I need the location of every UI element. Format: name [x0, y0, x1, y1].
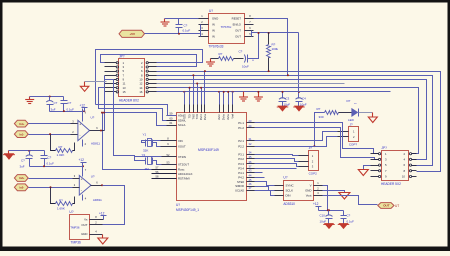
svg-text:15: 15 [123, 90, 127, 94]
svg-text:UCLK0: UCLK0 [235, 188, 244, 192]
wire MSP P3.1 to COP2 pin1 [255, 155, 299, 156]
svg-text:In2-: In2- [19, 186, 24, 190]
svg-text:U?: U? [91, 175, 95, 179]
svg-text:GND: GND [305, 189, 311, 193]
ground for C4 [293, 106, 305, 111]
svg-text:C?: C? [54, 101, 58, 105]
svg-text:GND: GND [212, 16, 218, 20]
svg-text:SCL/L: SCL/L [178, 123, 186, 127]
svg-text:RST/NMI: RST/NMI [178, 177, 190, 181]
capacitor C5 [46, 97, 57, 112]
svg-text:0.1uF: 0.1uF [183, 29, 191, 33]
svg-text:ADC12CLK: ADC12CLK [178, 172, 193, 176]
input connector Inp1 arrow [14, 120, 28, 127]
svg-text:P1.2: P1.2 [238, 126, 244, 130]
svg-text:TDO: TDO [182, 114, 186, 119]
svg-text:P3.1: P3.1 [238, 153, 244, 157]
svg-text:AVcc: AVcc [217, 113, 221, 120]
svg-text:Y1: Y1 [143, 133, 147, 137]
svg-text:RESET: RESET [232, 16, 242, 20]
svg-text:P3.2: P3.2 [238, 157, 244, 161]
wire header pin13 to MSP pin60 [99, 88, 177, 121]
svg-text:+12: +12 [313, 202, 319, 206]
svg-text:TMS: TMS [191, 114, 195, 120]
svg-text:JP?: JP? [119, 55, 125, 59]
output connector OUT arrow [378, 203, 400, 209]
capacitor C10 10uF [320, 211, 333, 224]
LED D1 [347, 99, 359, 122]
wire MSP P1.1 to JP4 pin1 [255, 123, 379, 154]
bus wire net5 [157, 88, 419, 154]
wire MSP P2.2 to J2 pin2 [255, 137, 338, 147]
svg-text:AD811: AD811 [93, 198, 102, 202]
svg-text:TCK: TCK [195, 114, 199, 119]
wire Inp2 to op-amp [29, 133, 71, 135]
wire +5V to U3 inputs [145, 25, 201, 37]
svg-text:3uF: 3uF [51, 108, 56, 112]
svg-text:OUT: OUT [383, 204, 390, 208]
bus wire net4 [157, 84, 345, 93]
svg-text:OUT: OUT [235, 34, 241, 38]
wire U3 GND pin to ground [165, 18, 199, 20]
wire MSP STE0 to DAC SYNC [255, 182, 275, 186]
svg-text:P2.2: P2.2 [238, 144, 244, 148]
svg-text:Vs: Vs [84, 218, 88, 222]
bus wire net2 [157, 74, 433, 165]
svg-text:16: 16 [139, 90, 143, 94]
svg-text:4M: 4M [145, 167, 150, 171]
wire C2 to OUT net [248, 33, 259, 59]
svg-text:GND: GND [81, 232, 87, 236]
ground for LED [368, 113, 377, 123]
wire resistor to LED [339, 112, 352, 114]
wire decoupling rail top 2 [9, 150, 45, 152]
svg-text:C10: C10 [320, 214, 326, 218]
bridge wire over header inner [101, 55, 197, 67]
svg-text:DIN: DIN [286, 193, 291, 197]
op-amp U5 AD811 [73, 167, 104, 203]
feedback resistor R3 1.02K [51, 135, 75, 158]
svg-text:TPS76x33: TPS76x33 [209, 45, 224, 49]
wire to MSP Rosc [101, 112, 152, 170]
svg-text:0.1uF: 0.1uF [347, 220, 355, 224]
resistor R2 330 [317, 107, 339, 119]
ground for DAC [323, 191, 350, 200]
ground for op-amp U5 decoupling [3, 151, 15, 160]
resistor R5 100k [267, 33, 279, 72]
wires MSP top pins to bus [185, 70, 233, 104]
connector +5V input arrow [119, 30, 145, 37]
ground at MSP top AVss [254, 91, 263, 101]
svg-text:+: + [79, 123, 81, 127]
svg-text:HEADER 5X2: HEADER 5X2 [381, 182, 401, 186]
decoupling ground for op-amp U4 [25, 97, 34, 104]
wire MSP P3.2 to COP2 pin2 [255, 159, 299, 162]
svg-text:UT: UT [395, 204, 399, 208]
svg-text:IN: IN [212, 34, 215, 38]
capacitor C8 [41, 151, 55, 167]
svg-text:C?: C? [48, 156, 52, 160]
svg-text:100k: 100k [272, 47, 279, 51]
capacitor C3 10uF [279, 91, 291, 107]
svg-text:Vout: Vout [306, 193, 312, 197]
svg-text:3uF: 3uF [20, 165, 25, 169]
capacitor C1 0.1uF at U3 input [176, 19, 191, 34]
svg-text:U?: U? [91, 116, 95, 120]
microcontroller U1 MSP430F149 [152, 105, 255, 213]
wire op-amp2 output to TMP out net [103, 186, 125, 225]
svg-text:MSP430F149: MSP430F149 [198, 148, 219, 152]
wire MSP SIMO0 to DAC SCLK [255, 187, 275, 191]
svg-text:P3.3: P3.3 [238, 162, 244, 166]
bus wire net3 [157, 80, 427, 160]
svg-text:P4.1: P4.1 [238, 171, 244, 175]
svg-text:XT2IN: XT2IN [178, 155, 186, 159]
svg-text:TPS76x: TPS76x [221, 25, 232, 29]
wire Inp4 to op-amp2 [29, 186, 73, 188]
svg-text:DVcc: DVcc [199, 113, 203, 120]
wire +12 rail bottom [319, 209, 344, 211]
ground of output filter [206, 59, 215, 67]
svg-text:32K: 32K [143, 149, 148, 153]
ground for C10 [323, 224, 335, 229]
wire MSP P3.3 to COP2 pin3 [255, 164, 299, 167]
crystal Y1 32K [142, 133, 161, 153]
svg-text:SCLK: SCLK [286, 189, 294, 193]
svg-text:C?: C? [184, 24, 188, 28]
wire MSP P3.4 [255, 168, 297, 170]
ground for U3 input [161, 19, 170, 27]
ground for TMP36 [98, 235, 108, 245]
svg-text:U?: U? [176, 203, 180, 207]
wire DAC Vout to OUT connector [323, 196, 378, 205]
svg-text:+5V: +5V [130, 32, 135, 36]
input connector Inp3 arrow [14, 175, 28, 182]
wire bridge to MSP pin59 [96, 105, 177, 116]
svg-text:R?: R? [59, 145, 63, 149]
svg-text:10: 10 [402, 175, 406, 179]
wire filter row [211, 58, 219, 60]
svg-text:COP?: COP? [349, 142, 358, 146]
svg-text:V: V [310, 184, 312, 188]
ground at header pin12 [80, 82, 89, 92]
svg-text:C?: C? [347, 214, 351, 218]
capacitor C6 [61, 97, 75, 112]
svg-text:XIN: XIN [178, 139, 183, 143]
wire MSP P1.2 to JP4 pin3 [255, 128, 379, 160]
wire op-amp1 output to MSP pin61 [105, 113, 167, 126]
OUT net of U3 [252, 31, 299, 37]
svg-text:R?: R? [219, 52, 223, 56]
svg-text:XOUT: XOUT [178, 144, 186, 148]
connector J2 COP [338, 122, 359, 146]
svg-text:JP?: JP? [381, 146, 387, 150]
capacitor C2 10uF polarized [239, 50, 255, 69]
svg-text:J?: J? [309, 146, 313, 150]
wire decoupling rail bottom 2 [30, 165, 85, 167]
header JP1 HEADER 8X2 [105, 55, 157, 103]
power +12 for DAC [313, 202, 322, 211]
capacitor C4 10uF [296, 97, 307, 107]
wire OUT net down to C4 [298, 33, 300, 98]
ground for C11 [338, 224, 350, 229]
svg-text:+12: +12 [79, 158, 85, 162]
wire MSP P2.1 to J2 pin1 [255, 132, 338, 141]
wire header pin8 down-left [105, 80, 135, 157]
svg-text:In2+: In2+ [19, 176, 25, 180]
wire resistor to C2 [234, 58, 244, 60]
ground near JP4 [358, 166, 370, 176]
svg-text:C?: C? [68, 101, 72, 105]
svg-text:U?: U? [283, 176, 287, 180]
op-amp U4 AD811 [71, 109, 105, 147]
power +12 for TMP36 [99, 212, 107, 220]
svg-text:XT2OUT: XT2OUT [178, 163, 189, 167]
resistor R1 [219, 52, 234, 60]
wire from MSP P2.2 up to LED [313, 113, 324, 148]
svg-text:AD5310: AD5310 [283, 202, 295, 206]
svg-text:1.69K: 1.69K [57, 206, 65, 210]
svg-text:P1.1: P1.1 [238, 121, 244, 125]
svg-text:+: + [252, 59, 254, 63]
svg-text:+: + [81, 178, 83, 182]
svg-text:R?: R? [59, 198, 63, 202]
wire U3 pin8 down to bus [254, 19, 288, 76]
svg-text:DVss: DVss [222, 113, 226, 120]
svg-text:SYNC: SYNC [286, 184, 294, 188]
svg-text:0.1uF: 0.1uF [67, 108, 75, 112]
svg-text:C?: C? [21, 159, 25, 163]
svg-text:D?: D? [347, 99, 351, 103]
svg-text:OUT: OUT [81, 223, 87, 227]
input connector Inp2 arrow [14, 131, 28, 138]
feedback resistor R4 1.69K [51, 188, 75, 211]
svg-text:U?: U? [69, 210, 73, 214]
svg-text:EN/LO: EN/LO [233, 22, 242, 26]
svg-text:TMP36: TMP36 [71, 241, 82, 245]
svg-text:P2.1: P2.1 [238, 139, 244, 143]
wire Inp1 to op-amp [29, 123, 71, 125]
svg-text:HEADER 8X2: HEADER 8X2 [119, 99, 139, 103]
bridge wire over header outer [96, 50, 203, 105]
power +12 for op-amp U4 [80, 104, 88, 112]
input connector Inp4 arrow [14, 184, 28, 191]
svg-text:J?: J? [350, 122, 354, 126]
svg-text:TDI: TDI [188, 114, 192, 118]
svg-text:10uF: 10uF [320, 220, 327, 224]
svg-text:C?: C? [239, 50, 243, 54]
wire MSP P4.2 short [255, 177, 265, 179]
svg-text:Vref: Vref [231, 114, 235, 119]
svg-text:C3: C3 [286, 97, 290, 101]
capacitor C11 0.1uF [341, 211, 355, 224]
svg-text:In1+: In1+ [19, 122, 25, 126]
crystal Y2 4M [135, 153, 162, 171]
svg-text:330: 330 [319, 115, 324, 119]
svg-text:R?: R? [317, 107, 321, 111]
voltage regulator U3 TPS76x33 [199, 9, 254, 49]
svg-text:0.1uF: 0.1uF [47, 162, 55, 166]
svg-text:Rosc: Rosc [178, 168, 185, 172]
capacitor C7 [20, 151, 33, 169]
temperature sensor U2 TMP36 [69, 210, 103, 245]
svg-text:AVss: AVss [226, 113, 230, 120]
wire Inp3 to op-amp2 [29, 178, 73, 180]
bus wire net6 [157, 91, 391, 93]
svg-text:OUT: OUT [235, 28, 241, 32]
header JP4 HEADER 5X2 [371, 146, 417, 186]
DAC U6 AD5310 [275, 176, 323, 206]
svg-text:C4: C4 [302, 97, 306, 101]
wire ground to header pin11 [85, 81, 107, 83]
wire decoupling rail top [30, 96, 64, 98]
svg-text:AD811: AD811 [91, 142, 100, 146]
ground at MSP top DVss [239, 92, 248, 102]
svg-text:P4.2: P4.2 [238, 176, 244, 180]
bus wire net1 [157, 70, 441, 171]
svg-text:DVss: DVss [203, 113, 207, 120]
svg-text:IN: IN [212, 28, 215, 32]
svg-text:IN: IN [212, 22, 215, 26]
wire decoupling rail bottom to +12 [50, 110, 86, 112]
svg-text:U?: U? [209, 9, 213, 13]
wire MSP UCLK0 to DAC DIN [255, 191, 275, 196]
svg-text:MSP430F149_1: MSP430F149_1 [176, 208, 199, 212]
svg-text:In1-: In1- [19, 132, 24, 136]
wire MSP P4.1 short [255, 172, 263, 174]
connector J4 COP2 [299, 146, 319, 175]
wire DAC Vdd to +12 [323, 186, 328, 211]
svg-text:10uF: 10uF [242, 65, 249, 69]
svg-text:TMP36: TMP36 [70, 226, 80, 230]
wire header pin3 down to op-amp output net [104, 76, 106, 131]
ground for C3 [277, 106, 289, 111]
svg-text:1.02K: 1.02K [57, 153, 65, 157]
power +12 for op-amp U5 [79, 158, 87, 166]
wire LED to ground [359, 112, 373, 114]
svg-text:COP2: COP2 [309, 171, 318, 175]
